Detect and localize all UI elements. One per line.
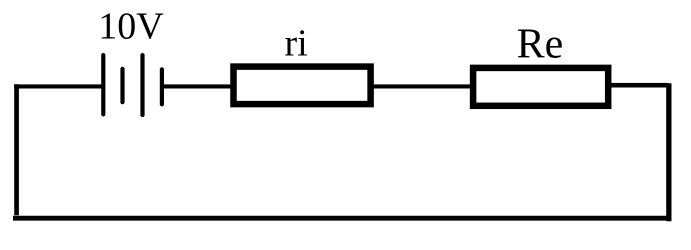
battery B1 plate 4 (short) (160, 69, 164, 104)
wire: resistor ri to resistor Re (371, 84, 473, 88)
battery B1 plate 3 (long) (140, 55, 144, 115)
svg-text:Re: Re (517, 22, 564, 68)
wire: right vertical side of loop (666, 83, 671, 221)
wire: battery to resistor ri (162, 84, 233, 88)
battery B1 plate 2 (short) (120, 69, 124, 102)
wire: resistor Re to right side of loop (608, 83, 668, 88)
resistor ri body (234, 67, 371, 105)
wire: bottom of loop (13, 216, 672, 221)
battery B1 plate 1 (long) (101, 55, 105, 114)
svg-text:ri: ri (285, 23, 308, 65)
wire: top-left horizontal (left loop to battery) (14, 84, 103, 88)
resistor Re body (473, 68, 608, 106)
svg-text:10V: 10V (98, 5, 164, 47)
wire: left vertical side of loop (14, 84, 19, 215)
